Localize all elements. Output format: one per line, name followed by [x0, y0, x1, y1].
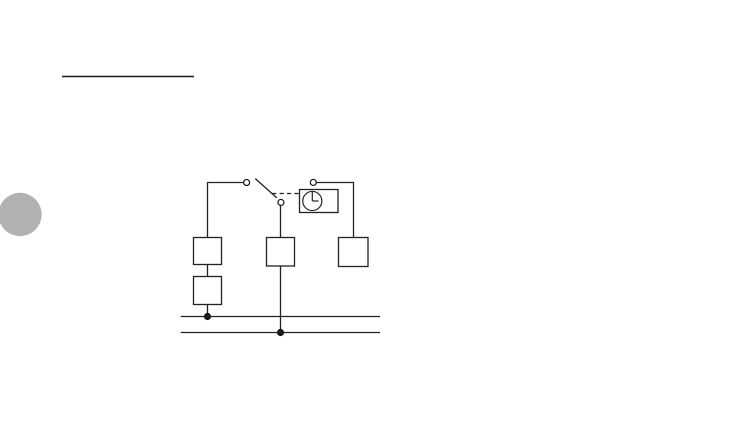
wire switch contact b down to middle box — [280, 206, 282, 238]
title underline rule — [62, 76, 194, 78]
bus line L2 — [181, 332, 380, 334]
timer output contact (open circle) — [310, 179, 316, 185]
load box K1 (left upper) — [194, 238, 222, 265]
switch S contact b (open circle) — [278, 199, 284, 205]
wire between K1 and K2 — [207, 265, 209, 277]
mechanical linkage (dashed) to timer — [272, 193, 299, 195]
switch S blade — [255, 179, 276, 198]
bus line L1 — [181, 316, 380, 318]
wire middle box down to bus L2 — [280, 266, 282, 333]
timer relay KT box — [300, 190, 339, 213]
wire right branch (horizontal then vertical down to right box) — [317, 183, 354, 238]
load box K3 (middle) — [267, 238, 295, 267]
wire K2 to bus L1 — [207, 305, 209, 317]
junction dot on bus L2 — [277, 329, 284, 336]
timer clock hand 3 o'clock — [312, 200, 318, 202]
load box K4 (right) — [339, 238, 369, 267]
junction dot on bus L1 — [204, 313, 211, 320]
timer clock face — [303, 191, 322, 210]
wire left branch top (vertical + horizontal to switch contact) — [208, 183, 244, 238]
load box K2 (left lower) — [194, 277, 222, 305]
timer clock hand 12 o'clock — [311, 192, 313, 201]
gray bullet circle — [0, 193, 42, 236]
switch S contact a (open circle) — [244, 180, 250, 186]
